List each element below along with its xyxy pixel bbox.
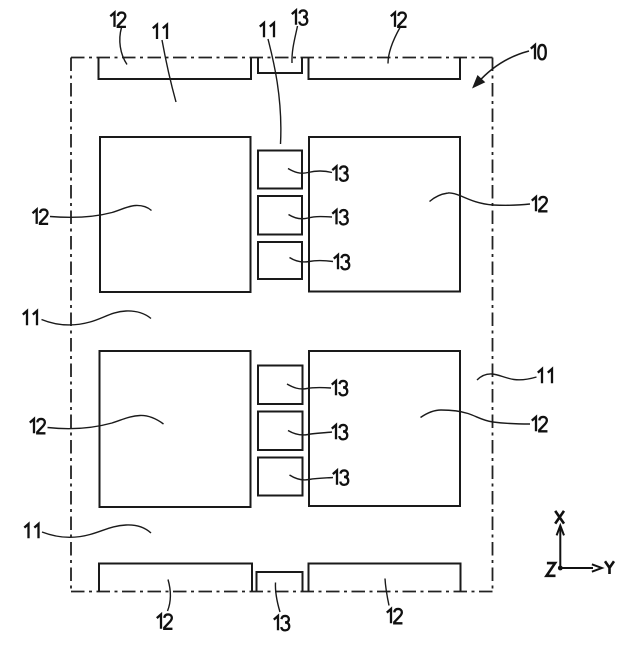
leader for 11 bottom-left xyxy=(42,525,151,537)
X axis arrow xyxy=(559,527,561,568)
leader for 13 bottom xyxy=(275,583,280,613)
label Z xyxy=(547,563,556,576)
leader for 12 middle-right xyxy=(430,193,531,205)
top strip electrode 12 (left) xyxy=(99,58,252,80)
label 13 lower #1 xyxy=(332,381,347,395)
arrowhead of 10 xyxy=(473,76,484,88)
leader for 12 lower-right xyxy=(421,410,531,424)
lower small electrode 13 (third) xyxy=(258,458,303,496)
label X xyxy=(555,511,564,524)
label 13 upper #3 xyxy=(334,255,349,269)
upper small electrode 13 (third) xyxy=(258,242,302,279)
substrate outline 10 (dash-dot border) xyxy=(71,58,493,592)
leader for 12 top-left xyxy=(120,28,127,65)
leader for 13 upper #3 xyxy=(290,258,334,263)
leader for 13 top xyxy=(292,26,298,63)
label 11 bottom-left xyxy=(24,524,38,538)
leader for 13 upper #2 xyxy=(289,215,333,219)
Y axis arrow xyxy=(560,567,593,569)
leader for 13 lower #1 xyxy=(287,384,331,389)
lower small electrode 13 (first) xyxy=(258,366,303,405)
label 11 middle-right xyxy=(538,369,552,383)
label 13 top xyxy=(292,10,307,24)
label 13 lower #2 xyxy=(332,425,347,439)
label 13 upper #2 xyxy=(332,210,347,224)
upper small electrode 13 (first) xyxy=(258,151,302,189)
leader for 11 middle-left xyxy=(42,311,152,325)
bottom strip electrode 12 (left) xyxy=(99,564,252,592)
leader for 13 lower #3 xyxy=(290,475,334,480)
bottom small electrode 13 (center) xyxy=(257,572,303,592)
leader for 13 upper #1 xyxy=(288,169,332,174)
leader for 12 top-right xyxy=(388,28,400,64)
upper-right large electrode 12 xyxy=(309,137,460,292)
leader for 11 top-center xyxy=(268,39,281,144)
upper small electrode 13 (second) xyxy=(258,196,302,235)
leader for 11 top-left xyxy=(162,40,176,102)
label 12 middle-right xyxy=(532,197,548,211)
label 13 upper #1 xyxy=(332,166,347,180)
label 13 bottom xyxy=(274,616,289,630)
label 12 top-right xyxy=(391,13,407,27)
label 12 middle-left xyxy=(33,210,49,224)
leader for 11 middle-right xyxy=(477,374,537,380)
label 12 lower-left xyxy=(30,419,46,433)
label 12 lower-right xyxy=(532,417,548,431)
lower-right large electrode 12 xyxy=(309,351,460,506)
label 12 top-left xyxy=(110,13,126,27)
top small electrode 13 (center) xyxy=(258,58,302,74)
label 11 middle-left xyxy=(23,311,37,325)
leader arrow for 10 xyxy=(478,51,530,83)
label 12 bottom-left xyxy=(157,614,173,628)
bottom strip electrode 12 (right) xyxy=(309,564,461,592)
lower-left large electrode 12 xyxy=(100,351,251,507)
label 11 top-left xyxy=(153,25,167,39)
leader for 12 bottom-right xyxy=(385,579,389,606)
label 13 lower #3 xyxy=(333,470,348,484)
top strip electrode 12 (right) xyxy=(309,58,461,80)
label 11 top-center xyxy=(260,23,274,37)
label Y xyxy=(605,561,614,574)
leader for 12 lower-left xyxy=(48,415,164,428)
label 10 xyxy=(531,45,546,59)
upper-left large electrode 12 xyxy=(100,137,251,292)
leader for 13 lower #2 xyxy=(288,431,332,436)
label 12 bottom-right xyxy=(387,609,403,623)
lower small electrode 13 (second) xyxy=(258,412,303,451)
leader for 12 middle-left xyxy=(50,205,152,217)
coordinate axes origin dot (Z axis) xyxy=(558,566,563,571)
leader for 12 bottom-left xyxy=(168,580,171,612)
